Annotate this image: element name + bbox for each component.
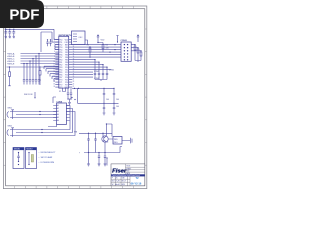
wire mid row1: [72, 59, 95, 61]
label SW block: [24, 94, 33, 96]
wire SW2 line1: [16, 106, 70, 130]
table lines: [111, 176, 130, 185]
label VDD1: [101, 40, 105, 42]
svg-text:104: 104: [116, 99, 119, 101]
resistor network RP2: [131, 48, 139, 61]
IC U1 pin name labels: [59, 39, 62, 89]
wire node rail below U1 right: [72, 88, 118, 103]
junction dots ground return: [88, 152, 106, 153]
junction dot SW2: [41, 129, 42, 133]
svg-text:COM3: COM3: [94, 78, 99, 80]
svg-text:Aa-M: Aa-M: [116, 183, 121, 186]
svg-text:Fiser: Fiser: [112, 168, 127, 174]
switch SW1 label: [8, 108, 13, 110]
module box OSC1: [72, 31, 88, 45]
resistor network RP1: [131, 45, 136, 61]
junction dots on bundle: [89, 44, 115, 58]
IC U1: [59, 34, 73, 88]
pull-down verticals with capacitors under key lines: [23, 54, 40, 85]
wire seg f: [54, 79, 59, 82]
legend note line 3: [38, 162, 54, 164]
junction dot VDD1: [97, 42, 98, 43]
svg-text:REG: REG: [114, 142, 118, 144]
svg-text:COM2: COM2: [109, 69, 114, 71]
IC U1 pins left side: [55, 40, 59, 88]
wire SW1 line3: [16, 117, 57, 119]
wire into title block area: [106, 158, 108, 166]
wire drop col1: [23, 64, 25, 85]
power flag VDD1: [97, 35, 99, 43]
capacitor C12 with ground: [103, 103, 106, 115]
capacitor C5: [49, 40, 51, 46]
IC U2 connector header: [56, 101, 66, 124]
power stub VDD3: [116, 36, 118, 43]
IC U1 pin numbers right: [73, 38, 75, 88]
junction dot SW1: [39, 111, 40, 115]
wire mid row8: [72, 76, 93, 78]
resistor R3 vertical: [89, 46, 91, 57]
title rows right of logo: [126, 164, 145, 174]
svg-text:25: 25: [116, 178, 118, 180]
svg-text:← SET/CLEAR: ← SET/CLEAR: [38, 156, 53, 159]
junction dot VDD3: [117, 41, 118, 42]
capacitor C2: [8, 29, 11, 38]
wire seg e: [52, 76, 59, 79]
wire drop col5: [35, 56, 37, 85]
wire net KEY4: [21, 60, 59, 62]
wire Q1 collector up: [106, 124, 112, 137]
IC U2 pins: [53, 106, 70, 121]
IC U2 pin labels: [57, 104, 59, 122]
wire drop col6: [38, 54, 40, 85]
power flag VDD2: [137, 35, 139, 62]
junction dots supply rail: [88, 133, 104, 134]
resistor R1: [8, 67, 11, 86]
wire VCC rail top-left: [5, 29, 59, 39]
capacitor C11: [113, 88, 115, 103]
junction dot R2: [39, 79, 40, 80]
junction dots RP: [134, 44, 141, 51]
svg-text:← DOWN/NORM: ← DOWN/NORM: [38, 162, 54, 164]
wire mid row4: [72, 66, 107, 68]
capacitor C13 with ground: [113, 103, 116, 115]
capacitor C9: [106, 67, 108, 79]
wire mid row6: [72, 71, 93, 73]
junction dots right cluster: [94, 59, 107, 68]
svg-text:24: 24: [73, 78, 75, 80]
PDF badge overlay: [0, 0, 44, 28]
junction dot node XIN: [47, 39, 51, 40]
staircase wires into U1 lower-left pins: [44, 66, 59, 81]
legend note line 1: [38, 152, 56, 154]
wire bus into U1 upper-left: [41, 32, 59, 52]
svg-text:SHEET: SHEET: [126, 168, 131, 170]
svg-text:21: 21: [73, 86, 75, 88]
navy band: [111, 174, 145, 176]
wire seg b: [46, 69, 59, 72]
svg-text:7805: 7805: [114, 139, 118, 141]
wire row A: [72, 44, 121, 46]
wire Q1 emitter down: [104, 142, 106, 152]
wire bus right of U1 mid rows: [72, 60, 111, 78]
svg-text:← MODE/SELECT: ← MODE/SELECT: [38, 152, 56, 154]
table texts: [112, 178, 126, 186]
transistor Q1: [102, 133, 108, 142]
wire seg c: [48, 71, 59, 74]
capacitor C15: [94, 133, 96, 152]
capacitor C8: [102, 65, 104, 80]
label GND arrow: [79, 152, 80, 154]
wire net KEY1: [21, 53, 59, 55]
wire net KEY2: [21, 55, 59, 57]
IC U1 pins right side: [69, 40, 73, 88]
svg-text:06-Y2-16: 06-Y2-16: [131, 182, 142, 186]
wire mid row5: [72, 69, 111, 71]
legend option box JP2: [26, 148, 37, 169]
MAIN SCHEMATIC INK: [4, 29, 58, 52]
capacitor C14: [87, 133, 89, 152]
wire row C: [72, 49, 121, 51]
wire SW1 line2: [16, 114, 57, 116]
capacitor C17 with ground: [104, 153, 107, 166]
capacitor C16 with ground: [98, 153, 101, 166]
wire drop col2: [26, 64, 28, 85]
junction dot on RST: [9, 66, 10, 67]
terminal CN1: [130, 138, 132, 144]
wire join caps: [95, 80, 107, 82]
label XTAL: [59, 91, 61, 93]
wire U2 top stub: [53, 97, 56, 103]
svg-text:7a-W: 7a-W: [116, 181, 120, 183]
wire SW2 line3: [16, 112, 75, 136]
switch SW1: [7, 110, 16, 119]
junction dot title wire: [106, 157, 107, 158]
wire drop col3: [29, 61, 31, 85]
value labels caps: [106, 99, 119, 108]
svg-text:«: «: [79, 152, 80, 154]
svg-text:SW-CON: SW-CON: [24, 94, 33, 96]
wire net KEY5: [21, 63, 59, 65]
resistor R2: [39, 66, 41, 85]
wire row B: [72, 46, 121, 48]
legend option box JP1: [13, 148, 24, 169]
svg-text:MODE2: MODE2: [27, 149, 33, 151]
junction dots crystal: [67, 98, 71, 99]
svg-text:COM1: COM1: [94, 71, 99, 73]
svg-text:WO-T: WO-T: [122, 181, 127, 183]
wire row E: [72, 54, 121, 56]
legend note line 2: [38, 156, 53, 159]
wire drop col4: [32, 59, 34, 85]
capacitor C4: [46, 40, 48, 46]
svg-text:TITLE: TITLE: [126, 166, 130, 168]
svg-text:«SEG-E: «SEG-E: [7, 63, 15, 65]
junction dots node rail: [74, 88, 115, 104]
capacitor C1: [4, 29, 7, 38]
label R4: [106, 45, 110, 50]
junction dots on key lines: [23, 53, 39, 64]
wire row D: [72, 51, 121, 53]
wire U3 output to terminal: [108, 139, 130, 141]
label R3: [87, 45, 89, 47]
IC U1 pin numbers left: [53, 38, 55, 88]
svg-text:104: 104: [106, 99, 109, 101]
junction dots on VCC rail: [5, 29, 14, 30]
svg-text:MODE1: MODE1: [14, 149, 20, 151]
svg-text:20: 20: [53, 86, 55, 88]
wire row F: [72, 56, 121, 58]
regulator box U3: [113, 137, 122, 145]
svg-text:P73: P73: [59, 87, 62, 89]
svg-text:19: 19: [53, 83, 55, 85]
svg-text:PDF: PDF: [9, 7, 39, 24]
left net labels with wires: [7, 54, 59, 68]
capacitor C6: [94, 60, 96, 80]
junction dot Q1: [106, 123, 107, 124]
svg-text:104: 104: [116, 106, 119, 108]
svg-text:WW: WW: [122, 184, 126, 186]
svg-text:CON8: CON8: [56, 101, 62, 103]
wire mid row7: [72, 74, 93, 76]
svg-text:R3: R3: [87, 45, 89, 47]
label VIN: [74, 131, 78, 133]
connector J1: [121, 40, 132, 61]
wire arrow down node SW: [34, 92, 36, 98]
capacitor C7: [98, 62, 100, 79]
title block: [111, 164, 145, 186]
wire SW1 line1: [16, 111, 57, 113]
net stub labels right of U1: [94, 69, 114, 80]
crystal Y1 circuit below U1: [63, 88, 73, 104]
capacitor C3: [12, 29, 15, 38]
svg-text:22: 22: [73, 83, 75, 85]
resistor R4 vertical: [98, 43, 104, 53]
svg-text:EM78P447SA: EM78P447SA: [59, 34, 73, 37]
junction dots near U2: [71, 97, 75, 100]
wire mid row3: [72, 64, 103, 66]
svg-text:R4: R4: [106, 45, 108, 47]
vertical drops with caps right cluster: [94, 60, 108, 81]
wire stubs into U1 pins 3-5: [55, 45, 59, 50]
svg-text:FILE: FILE: [126, 171, 129, 173]
switch SW2: [7, 128, 16, 137]
svg-text:23: 23: [73, 81, 75, 83]
svg-text:X1: X1: [59, 91, 61, 93]
wire net RST: [7, 66, 59, 68]
wire net KEY3: [21, 58, 59, 60]
capacitor C10: [103, 88, 105, 103]
net label texts left column: [7, 52, 15, 65]
power supply rail: [79, 132, 112, 134]
wire seg a: [44, 66, 59, 69]
resistor network RP3: [131, 51, 142, 61]
wire seg d: [50, 74, 59, 77]
ground return wire: [84, 147, 122, 153]
ground under C14: [87, 153, 90, 166]
right side wire bundle to connector: [72, 45, 121, 58]
wire SW2 line2: [16, 109, 73, 133]
switch SW2 label: [8, 126, 13, 128]
wire mid row2: [72, 61, 99, 63]
wire U2 lower loop: [48, 124, 57, 127]
